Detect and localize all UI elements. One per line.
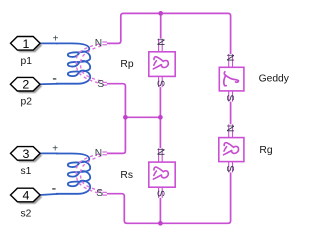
junction dot bottom rail bbox=[158, 221, 163, 226]
block Geddy icon bbox=[224, 72, 239, 86]
port 1 shadow bbox=[13, 39, 43, 53]
svg-text:S: S bbox=[224, 95, 235, 102]
wire: port4 blue lead bbox=[40, 194, 58, 195]
wire: upper winding N up to top rail across to Geddy N bbox=[107, 13, 231, 54]
port label - lower winding bbox=[52, 188, 55, 190]
svg-text:S: S bbox=[97, 79, 104, 90]
svg-text:N: N bbox=[95, 38, 102, 49]
svg-text:Rg: Rg bbox=[259, 145, 272, 156]
block Rg bbox=[219, 138, 244, 162]
port 3 bbox=[11, 147, 41, 161]
svg-text:+: + bbox=[52, 143, 58, 154]
block Rs icon bbox=[153, 167, 168, 179]
port 2 shadow bbox=[13, 80, 43, 94]
svg-text:p2: p2 bbox=[21, 97, 33, 108]
svg-text:N: N bbox=[154, 148, 165, 155]
block Geddy bbox=[219, 67, 244, 91]
wire: middle junction horizontal segment bbox=[125, 116, 160, 118]
svg-text:p1: p1 bbox=[21, 56, 33, 67]
wire: middle junction down to Rs N bbox=[159, 117, 161, 148]
wire: top rail branch down to Rp N bbox=[160, 13, 162, 38]
svg-text:S: S bbox=[154, 80, 165, 87]
svg-text:1: 1 bbox=[22, 37, 29, 51]
wire: port1 blue lead bbox=[40, 42, 58, 44]
port 3 shadow bbox=[13, 149, 43, 163]
svg-text:S: S bbox=[96, 188, 103, 199]
port stubs Rg N bbox=[229, 124, 233, 137]
port 1 bbox=[11, 37, 41, 51]
svg-text:Rs: Rs bbox=[120, 170, 133, 181]
svg-text:N: N bbox=[224, 125, 235, 132]
port stubs Rp N bbox=[159, 39, 163, 52]
port stubs lower winding S bbox=[102, 192, 107, 195]
svg-text:S: S bbox=[224, 165, 235, 172]
port stubs lower winding N bbox=[102, 152, 107, 155]
winding W2 coil bbox=[56, 154, 90, 194]
svg-text:N: N bbox=[95, 148, 102, 159]
svg-text:s2: s2 bbox=[21, 209, 32, 220]
junction dot middle left bbox=[123, 115, 128, 120]
winding W1 coil bbox=[56, 43, 90, 83]
block Rg icon bbox=[224, 143, 239, 155]
svg-text:s1: s1 bbox=[21, 166, 32, 177]
svg-text:Rp: Rp bbox=[120, 59, 133, 70]
wire: Rp S down to middle junction bbox=[159, 87, 161, 117]
block Rp bbox=[149, 52, 175, 77]
svg-text:4: 4 bbox=[22, 189, 29, 203]
port 2 bbox=[10, 77, 40, 91]
wire: port3 blue lead bbox=[40, 152, 58, 154]
svg-text:3: 3 bbox=[22, 147, 29, 161]
svg-text:2: 2 bbox=[22, 78, 29, 92]
port stubs upper winding S bbox=[102, 82, 107, 85]
wire: upper winding S right and down to middle junction bbox=[107, 84, 126, 118]
junction dot top rail bbox=[158, 11, 163, 16]
wire: Geddy S down to Rg N bbox=[230, 102, 232, 125]
port stubs Geddy N bbox=[229, 54, 233, 67]
port stubs upper winding N bbox=[102, 42, 107, 45]
port 4 shadow bbox=[13, 190, 43, 204]
block Rp icon bbox=[153, 57, 168, 69]
wire: middle junction down to lower winding N bbox=[107, 117, 126, 153]
svg-text:N: N bbox=[224, 54, 235, 61]
port stubs Rg S bbox=[229, 162, 233, 173]
winding W2 flux dashed lines bbox=[76, 154, 102, 193]
wire: Rs S down to bottom rail bbox=[159, 198, 161, 223]
wire: lower winding S down along bottom rail up to Rg S bbox=[107, 172, 231, 223]
port 4 bbox=[11, 188, 41, 202]
block Rs bbox=[149, 162, 175, 187]
winding W1 flux dashed lines bbox=[76, 44, 102, 83]
port stubs Rs S bbox=[159, 187, 163, 198]
svg-text:S: S bbox=[154, 190, 165, 197]
svg-text:+: + bbox=[53, 33, 59, 44]
port stubs Geddy S bbox=[229, 91, 233, 102]
port label - upper winding bbox=[53, 78, 56, 80]
port stubs Rs N bbox=[159, 148, 163, 162]
svg-text:N: N bbox=[154, 39, 165, 46]
junction dot middle right bbox=[158, 115, 163, 120]
wire: port2 blue lead bbox=[40, 83, 58, 85]
port stubs Rp S bbox=[159, 76, 163, 87]
svg-text:Geddy: Geddy bbox=[259, 73, 290, 84]
